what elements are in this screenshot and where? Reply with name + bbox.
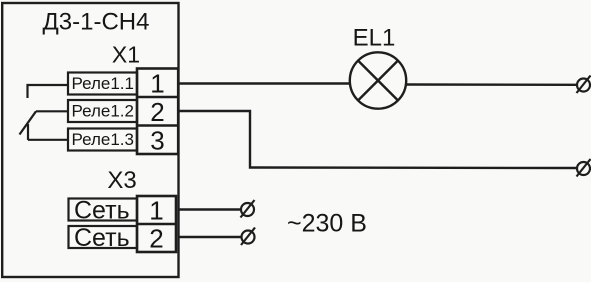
label EL1	[353, 25, 396, 52]
lamp EL1	[350, 52, 406, 108]
wire Реле1.3	[28, 139, 68, 141]
wire X1 pin2 to output terminal 2	[178, 111, 577, 168]
svg-text:Реле1.1: Реле1.1	[72, 74, 135, 93]
svg-text:Сеть: Сеть	[74, 197, 130, 225]
connector X1 pin column	[137, 69, 178, 155]
mains terminal 1 (Ø)	[241, 200, 255, 218]
device box Д3-1-СН4	[2, 3, 178, 277]
signal cell Реле1.3	[68, 129, 137, 151]
X1 pin number 3	[150, 125, 164, 155]
label connector X1	[112, 42, 140, 68]
wire lamp EL1 to output terminal 1	[406, 83, 577, 86]
signal cell Сеть (X3 pin 2)	[69, 224, 138, 252]
svg-text:Сеть: Сеть	[74, 224, 130, 252]
wire X3 pin2 to mains terminal	[178, 236, 241, 238]
svg-text:X1: X1	[112, 42, 140, 68]
wire Реле1.2	[36, 110, 68, 112]
wire X3 pin1 to mains terminal	[178, 208, 241, 210]
svg-text:2: 2	[149, 224, 163, 254]
relay changeover contact blade	[20, 111, 37, 134]
X1 pin number 2	[150, 97, 164, 127]
X3 pin number 2	[149, 224, 163, 254]
output terminal 2 (Ø)	[577, 159, 591, 177]
svg-text:3: 3	[150, 125, 164, 155]
svg-text:2: 2	[150, 97, 164, 127]
label connector X3	[107, 167, 136, 194]
X3 pin number 1	[149, 196, 163, 226]
svg-text:EL1: EL1	[353, 25, 396, 52]
wire Реле1.1 with hooked fixed contact	[28, 85, 69, 98]
wire X1 pin1 to lamp EL1	[178, 82, 350, 84]
signal cell Реле1.2	[68, 100, 137, 122]
svg-text:Д3-1-СН4: Д3-1-СН4	[43, 9, 150, 36]
label ~230 В	[287, 210, 367, 238]
svg-text:1: 1	[149, 196, 163, 226]
svg-text:~230 В: ~230 В	[287, 210, 367, 238]
signal cell Сеть (X3 pin 1)	[69, 197, 138, 225]
signal cell Реле1.1	[68, 73, 137, 95]
mains terminal 2 (Ø)	[241, 228, 255, 246]
X1 pin number 1	[150, 68, 164, 98]
connector X3 pin column	[137, 196, 176, 252]
relay contact common stub	[27, 124, 29, 140]
label Д3-1-СН4	[43, 9, 150, 36]
svg-text:X3: X3	[107, 167, 136, 194]
svg-text:1: 1	[150, 68, 164, 98]
output terminal 1 (Ø)	[577, 76, 591, 94]
svg-text:Реле1.3: Реле1.3	[72, 130, 135, 149]
svg-text:Реле1.2: Реле1.2	[72, 102, 135, 121]
